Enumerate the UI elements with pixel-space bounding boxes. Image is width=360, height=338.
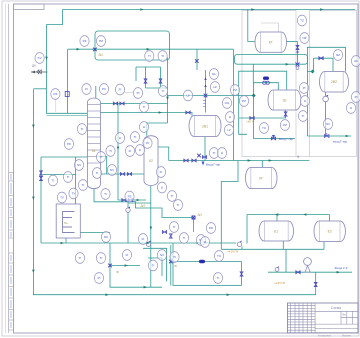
instrument bubble TI5 — [48, 175, 57, 186]
svg-text:Схема: Схема — [331, 306, 341, 310]
svg-text:TU: TU — [262, 126, 266, 130]
svg-text:TV: TV — [72, 192, 76, 196]
wire drum2b valve line — [253, 83, 278, 90]
instrument bubble PZh7 — [239, 96, 248, 107]
svg-text:TI: TI — [134, 135, 137, 139]
drum KG — [246, 168, 278, 189]
valve loop b — [159, 79, 162, 83]
wire y136 export — [307, 135, 351, 137]
arrow y243 a — [61, 242, 64, 245]
wire drum2b bottoms — [239, 110, 286, 118]
instrument bubble NV — [74, 160, 83, 171]
wire left riser down and bottom run — [33, 89, 315, 294]
instrument bubble TI23 — [139, 102, 148, 113]
wire kt valve drop — [297, 42, 299, 65]
wire y112 line to drum — [100, 113, 192, 118]
valve y200 b — [128, 199, 132, 202]
instrument bubble FI1 — [115, 84, 124, 95]
svg-text:LI: LI — [161, 186, 164, 190]
svg-text:FI: FI — [129, 149, 132, 153]
svg-text:TI: TI — [104, 192, 107, 196]
instrument bubble FI2 — [82, 84, 91, 95]
instrument bubble TI17 — [298, 111, 307, 122]
instrument bubble TI12 — [101, 189, 110, 200]
svg-text:TI: TI — [148, 54, 151, 58]
svg-text:TI: TI — [183, 236, 186, 240]
instrument bubble LI6 — [217, 148, 226, 159]
wire kt outlet — [287, 41, 298, 43]
inlet line DK — [31, 70, 48, 74]
svg-text:Н-2б ПУ: Н-2б ПУ — [275, 281, 286, 285]
wire v2 box — [307, 47, 345, 136]
instrument bubble TI11 — [78, 180, 87, 191]
control valve x194 — [191, 215, 195, 219]
wire loop inner top — [136, 67, 161, 81]
pump capsule N5 — [263, 77, 269, 80]
wire valve drop a — [145, 67, 147, 88]
svg-text:PI: PI — [98, 276, 101, 280]
svg-text:LI: LI — [119, 136, 122, 140]
valve drum bottoms — [197, 154, 201, 158]
svg-text:TI: TI — [79, 256, 82, 260]
instrument bubble FI3 — [125, 146, 134, 157]
arrow y243 b — [147, 242, 150, 245]
wire drum2b box left — [239, 90, 247, 134]
arrow x48 — [45, 57, 48, 60]
instrument bubble PI2 — [143, 138, 152, 149]
instrument bubble TI13 — [167, 191, 176, 202]
wire main header — [63, 9, 356, 11]
instrument bubble OK1 — [101, 232, 110, 243]
wire y200 interconnect — [118, 199, 146, 201]
instrument bubble TV — [69, 188, 78, 199]
wire y212 run — [247, 214, 330, 216]
svg-text:Формат: Формат — [342, 333, 352, 337]
left margin stamp upper — [9, 173, 14, 239]
instrument bubble PD — [206, 223, 215, 234]
arrow product — [337, 271, 340, 274]
svg-text:Копировал: Копировал — [318, 333, 331, 337]
valve v2 inner — [319, 57, 323, 60]
wire staircase to tanks — [221, 161, 238, 250]
arrow riser 3 — [32, 270, 35, 273]
left margin stamp lower — [9, 253, 14, 330]
instrument bubble TI22 — [75, 253, 84, 264]
flow marks x205 — [204, 77, 206, 87]
svg-text:PZ: PZ — [53, 92, 57, 96]
valve y265 — [108, 264, 112, 268]
valve x41 b — [40, 176, 43, 180]
svg-text:ДК: ДК — [32, 64, 36, 68]
svg-text:PZ: PZ — [83, 39, 87, 43]
arrow y160 b — [269, 159, 272, 162]
valve drum2b feed — [263, 81, 270, 84]
instrument bubble PZh2 — [96, 36, 105, 47]
svg-text:Вг: Вг — [117, 270, 120, 274]
arrow y212 a — [275, 213, 278, 216]
inlet G-ef arrow 2 — [272, 135, 275, 139]
wire valve drop b — [160, 67, 162, 88]
left strip rail — [8, 4, 10, 333]
wire kt feed — [248, 10, 255, 42]
svg-text:OK: OK — [104, 235, 108, 239]
instrument bubble LI1 — [115, 133, 124, 144]
instrument bubble PI1 — [133, 88, 142, 99]
valve x41 a — [40, 171, 43, 175]
title block — [288, 303, 359, 333]
instrument bubble LI2 — [139, 122, 148, 133]
wire y103 line — [100, 103, 167, 105]
instrument bubble SV — [196, 235, 205, 246]
svg-text:TI: TI — [152, 264, 155, 268]
valve y103 b — [120, 102, 124, 105]
wire kg top — [261, 161, 263, 168]
instrument bubble OG7 — [222, 98, 231, 109]
svg-text:KV: KV — [38, 56, 42, 60]
svg-text:Др5: Др5 — [140, 204, 145, 208]
svg-text:TI: TI — [177, 203, 180, 207]
wire small loop a — [143, 248, 167, 281]
wire y249 to pumpline — [285, 249, 287, 272]
wire column top vent — [95, 86, 97, 98]
svg-text:Н-2б ПУ: Н-2б ПУ — [228, 250, 239, 254]
svg-text:Жидк У-3: Жидк У-3 — [335, 266, 348, 270]
arrow main header 3 — [320, 8, 323, 11]
instrument bubble LI8 — [346, 103, 355, 114]
valve y174 a — [120, 173, 124, 176]
instrument bubble TU — [214, 251, 223, 262]
instrument bubble PI5 — [94, 273, 103, 284]
drum 2V1 — [189, 116, 221, 137]
svg-text:PI: PI — [355, 95, 358, 99]
svg-text:TZ: TZ — [300, 19, 304, 23]
svg-text:Вход Г-эф: Вход Г-эф — [279, 137, 294, 141]
wire y203 stub — [128, 202, 151, 204]
wire header drop left — [47, 10, 88, 114]
wire tank riser — [246, 215, 248, 244]
svg-text:NV: NV — [77, 163, 81, 167]
valve y103 a — [113, 102, 117, 105]
wire e2 bottoms — [323, 242, 325, 250]
wire long mid line y160 — [169, 160, 310, 162]
arrow x118 — [117, 147, 120, 150]
svg-text:SV: SV — [160, 253, 164, 257]
svg-text:КТ: КТ — [269, 40, 273, 44]
svg-text:TI: TI — [100, 155, 103, 159]
svg-text:TI: TI — [161, 54, 164, 58]
valve loop a — [144, 79, 147, 83]
svg-text:PZ: PZ — [283, 123, 287, 127]
arrow y112 — [159, 111, 162, 114]
gray bottom tie — [296, 156, 309, 158]
wire branch to left riser — [33, 88, 46, 90]
valve x197 — [195, 59, 199, 63]
svg-text:LI: LI — [350, 106, 353, 110]
control valve y136 — [325, 133, 330, 138]
wire furnace top feed — [75, 157, 77, 204]
svg-text:TI: TI — [143, 105, 146, 109]
svg-text:LV: LV — [186, 94, 189, 98]
wire drum2b feed riser — [252, 64, 254, 83]
unit boundary box II — [309, 11, 356, 157]
wire y249 run — [221, 248, 324, 250]
instrument bubble TI7 — [130, 132, 139, 143]
wire k2 feed — [147, 123, 168, 136]
svg-text:2В2: 2В2 — [331, 80, 337, 84]
valve y174 b — [127, 173, 131, 176]
column K2 — [144, 136, 158, 186]
wire drum2v1 bottom — [204, 136, 206, 161]
svg-text:TV: TV — [60, 196, 64, 200]
arrow y243 c — [197, 242, 200, 245]
arrow y200 — [137, 199, 140, 202]
instrument bubble LV1 — [183, 90, 192, 101]
wire reboiler loop top — [41, 156, 87, 158]
svg-text:LV: LV — [227, 128, 230, 132]
control valve y64 — [296, 63, 300, 70]
collector loop — [235, 55, 308, 65]
instrument bubble TI14 — [173, 200, 182, 211]
instrument bubble TI8 — [106, 146, 115, 157]
arrow main header 2 — [251, 8, 254, 11]
wire small loop b — [148, 258, 162, 276]
instrument bubble TI3 — [77, 124, 86, 135]
instrument bubble TU9 — [259, 123, 268, 134]
wire x118 drop — [117, 104, 119, 201]
instrument bubble PV — [99, 84, 108, 95]
instrument bubble TI19 — [148, 260, 157, 271]
svg-text:NV: NV — [110, 168, 114, 172]
wire feed line y48 — [68, 48, 234, 50]
wire v2 inner — [307, 58, 333, 71]
wire gray y92 — [120, 92, 133, 94]
svg-text:Др1: Др1 — [98, 53, 103, 57]
wire x205 stub — [205, 70, 207, 113]
instrument bubble TI9 — [96, 152, 105, 163]
inlet G-ef arrow 1 — [202, 162, 205, 166]
wire product line — [268, 271, 352, 273]
svg-text:TI: TI — [173, 225, 176, 229]
wire v2 pump line — [325, 92, 327, 97]
instrument bubble NVV — [107, 165, 116, 176]
svg-text:Е2: Е2 — [328, 230, 332, 234]
wire kt vent gray — [261, 23, 278, 32]
svg-text:LI: LI — [304, 99, 307, 103]
wire reboiler branch — [43, 174, 76, 176]
svg-text:TI: TI — [173, 255, 176, 259]
svg-text:PI: PI — [303, 86, 306, 90]
svg-text:NZ: NZ — [303, 36, 307, 40]
instrument bubble PZhM — [230, 85, 239, 96]
instrument bubble PZhF — [51, 89, 60, 100]
valve y160 b — [192, 159, 196, 162]
svg-text:Вг: Вг — [175, 264, 178, 268]
svg-text:PZ: PZ — [99, 39, 103, 43]
wire e1 feed — [276, 215, 278, 222]
svg-text:TI: TI — [100, 256, 103, 260]
svg-text:PV: PV — [102, 87, 106, 91]
arrow y61 — [286, 63, 289, 66]
valve y95 — [204, 94, 208, 98]
wire x241 riser — [241, 262, 243, 286]
instrument bubble NVD — [323, 119, 332, 130]
pump N1 — [237, 241, 241, 247]
instrument bubble TI15 — [169, 222, 178, 233]
wire exchanger loop box — [95, 31, 170, 60]
instrument bubble LI3 — [135, 145, 144, 156]
wire feed drop x67 — [67, 49, 69, 113]
instrument bubble TI24 — [170, 252, 179, 263]
wire y95 line — [168, 95, 254, 97]
svg-text:TU: TU — [217, 254, 221, 258]
wire x173 drop — [173, 243, 242, 286]
wire x167 drop — [167, 58, 169, 124]
instrument bubble PZh1 — [80, 36, 89, 47]
wire furnace bottom — [65, 238, 67, 243]
svg-text:FI: FI — [85, 87, 88, 91]
svg-text:FI: FI — [142, 237, 145, 241]
wire k1 side outlet — [100, 157, 106, 175]
svg-text:TI: TI — [162, 89, 165, 93]
svg-text:TI: TI — [109, 149, 112, 153]
valve drum2b out — [250, 117, 254, 120]
instrument bubble TV2 — [57, 192, 66, 203]
svg-text:TI: TI — [213, 151, 216, 155]
svg-text:NZ: NZ — [336, 53, 340, 57]
wire v2 pump out — [325, 101, 327, 136]
leader PZhF — [55, 97, 57, 112]
wire y261 pump run — [171, 261, 242, 263]
arrow x150 — [150, 227, 153, 230]
instrument bubble TI2 — [158, 51, 167, 62]
arrow y136 — [346, 135, 349, 138]
arrow y287 — [144, 286, 147, 289]
instrument bubble OL2 — [209, 69, 218, 80]
instrument bubble NZZ — [300, 33, 309, 44]
instrument bubble SV2 — [157, 250, 166, 261]
valve y138 — [271, 137, 275, 140]
arrow bottom run b — [105, 293, 108, 296]
svg-text:Пе: Пе — [64, 221, 68, 225]
arrow feed y48 — [77, 48, 80, 51]
instrument bubble FI8 — [122, 250, 131, 261]
svg-text:TI: TI — [171, 194, 174, 198]
wire y174 interconnect — [100, 173, 144, 175]
wire x110 drop — [110, 243, 162, 287]
instrument bubble LI5 — [225, 112, 234, 123]
instrument bubble TI4 — [63, 172, 72, 183]
wire loop inner bottom — [146, 87, 168, 89]
instrument bubble PZh8 — [280, 120, 289, 131]
svg-text:PZ: PZ — [233, 88, 237, 92]
svg-text:вход Г-эф: вход Г-эф — [333, 140, 347, 144]
valve y160 a — [184, 159, 188, 162]
svg-text:FI: FI — [119, 88, 122, 92]
svg-text:FI: FI — [126, 253, 129, 257]
separator 2B — [268, 90, 301, 110]
svg-text:TI: TI — [82, 183, 85, 187]
svg-text:PK: PK — [67, 142, 71, 146]
top-left stamp box — [14, 4, 45, 10]
instrument bubble TI21 — [96, 253, 105, 264]
pump on x128 — [126, 206, 130, 212]
wire y265 stub — [110, 265, 140, 267]
instrument bubble LI4 — [157, 182, 166, 193]
junction diamond v2 — [311, 70, 315, 74]
signal ticks x204 — [203, 101, 205, 107]
wire k1 bottoms — [94, 189, 128, 202]
drum 2V2 — [320, 72, 349, 93]
arrow main header 1 — [140, 8, 143, 11]
svg-text:КГ: КГ — [259, 176, 263, 180]
valve product — [296, 271, 300, 274]
svg-text:LI: LI — [221, 151, 224, 155]
wire x254 drop — [254, 83, 296, 139]
svg-text:Е1: Е1 — [274, 229, 278, 233]
arrow y160 a — [248, 159, 251, 162]
instrument bubble LZh — [210, 82, 219, 93]
svg-text:TI: TI — [96, 171, 99, 175]
valve y200 a — [122, 199, 126, 202]
svg-text:TI: TI — [81, 127, 84, 131]
arrow y212 b — [303, 213, 306, 216]
valve drum feed — [186, 111, 190, 114]
compressor PK — [304, 258, 312, 273]
tank E1 — [259, 221, 293, 241]
svg-text:OL: OL — [212, 72, 216, 76]
wire x194 line — [193, 218, 195, 233]
instrument bubble KV — [35, 53, 44, 64]
instrument bubble TI1 — [145, 51, 154, 62]
wire furnace out — [80, 232, 110, 234]
svg-text:FI: FI — [204, 240, 207, 244]
valve y232 — [162, 231, 166, 234]
wire x197 drop — [196, 49, 198, 70]
svg-text:PI: PI — [137, 91, 140, 95]
svg-text:+ЖГ/у: +ЖГ/у — [246, 120, 255, 124]
pump capsule N4 — [199, 260, 205, 263]
svg-text:AV: AV — [354, 59, 358, 63]
svg-text:Др1: Др1 — [197, 213, 202, 217]
svg-text:TI: TI — [302, 114, 305, 118]
wire gray y115 — [47, 115, 88, 117]
instrument bubble FI7 — [200, 237, 209, 248]
drum KT — [255, 32, 287, 52]
svg-text:К2: К2 — [149, 159, 153, 163]
instrument bubble PI4 — [351, 92, 360, 103]
svg-text:PI: PI — [146, 141, 149, 145]
instrument bubble TZ — [297, 15, 306, 26]
instrument bubble AV — [351, 56, 360, 67]
arrow bottom run — [227, 293, 230, 296]
instrument bubble LI7 — [300, 96, 309, 107]
column K1 — [87, 98, 100, 189]
instrument bubble TI6 — [158, 86, 167, 97]
svg-text:TI: TI — [217, 276, 220, 280]
svg-text:OG: OG — [225, 101, 230, 105]
wire y243 run — [41, 242, 236, 244]
wire pump tail — [241, 247, 243, 250]
wire e2 feed — [329, 215, 331, 222]
svg-text:LI: LI — [143, 125, 146, 129]
svg-text:NV: NV — [326, 122, 330, 126]
svg-text:PZ: PZ — [128, 195, 132, 199]
svg-text:TI: TI — [67, 175, 70, 179]
svg-text:LZ: LZ — [213, 85, 217, 89]
wire e1 bottoms — [282, 241, 284, 249]
svg-text:PZ: PZ — [242, 99, 246, 103]
wire k2 side outlet — [158, 147, 169, 161]
